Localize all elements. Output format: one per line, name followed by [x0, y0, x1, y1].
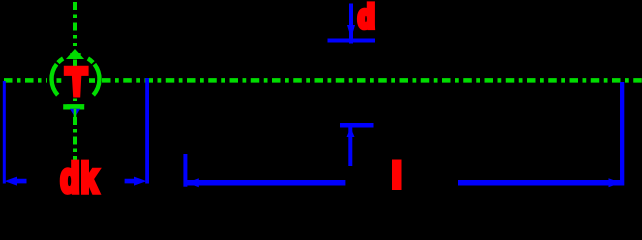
- l dim right arrow: [609, 178, 621, 187]
- label l: [392, 160, 402, 191]
- l dim line left part: [185, 180, 345, 186]
- l right extension line: [620, 82, 624, 186]
- green arc chord bottom: [63, 104, 84, 109]
- d dim arrow down: [347, 25, 355, 39]
- d dim lower bar: [340, 123, 374, 128]
- head drive circle top dash: [71, 53, 81, 58]
- dk right extension line: [145, 78, 149, 184]
- head drive circle NNE dash: [88, 58, 93, 62]
- green arrow up: [66, 49, 84, 59]
- vertical centerline below circle: [73, 117, 77, 163]
- horizontal centerline left part: [0, 78, 47, 83]
- horizontal centerline dot inside circle right: [89, 78, 95, 83]
- l dim left arrow: [187, 178, 199, 187]
- d dim upper bar: [328, 39, 376, 43]
- green arrow down: [67, 104, 85, 114]
- horizontal centerline dot inside circle left: [57, 78, 62, 83]
- dk dim left arrow: [5, 177, 27, 186]
- l left extension line: [183, 154, 187, 187]
- label d: [358, 0, 375, 35]
- d dim arrow up: [347, 128, 355, 138]
- head drive circle left arc: [51, 64, 57, 95]
- blue arrow down: [70, 109, 80, 117]
- label T: [64, 66, 89, 98]
- green tail below circle: [74, 109, 77, 121]
- d dim upper leader: [349, 4, 353, 44]
- dk dim right arrow: [125, 177, 147, 186]
- d dim lower leader: [348, 128, 352, 167]
- l dim line right part: [458, 180, 622, 186]
- svg-text:d: d: [358, 0, 375, 35]
- dk left extension line: [3, 81, 6, 184]
- label dk: [60, 155, 99, 201]
- horizontal centerline right part: [102, 78, 642, 83]
- vertical centerline inside circle: [73, 60, 77, 102]
- head drive circle right arc: [93, 64, 99, 95]
- head drive circle NNW dash: [58, 58, 63, 62]
- vertical centerline above circle: [73, 2, 77, 46]
- svg-text:dk: dk: [60, 155, 99, 200]
